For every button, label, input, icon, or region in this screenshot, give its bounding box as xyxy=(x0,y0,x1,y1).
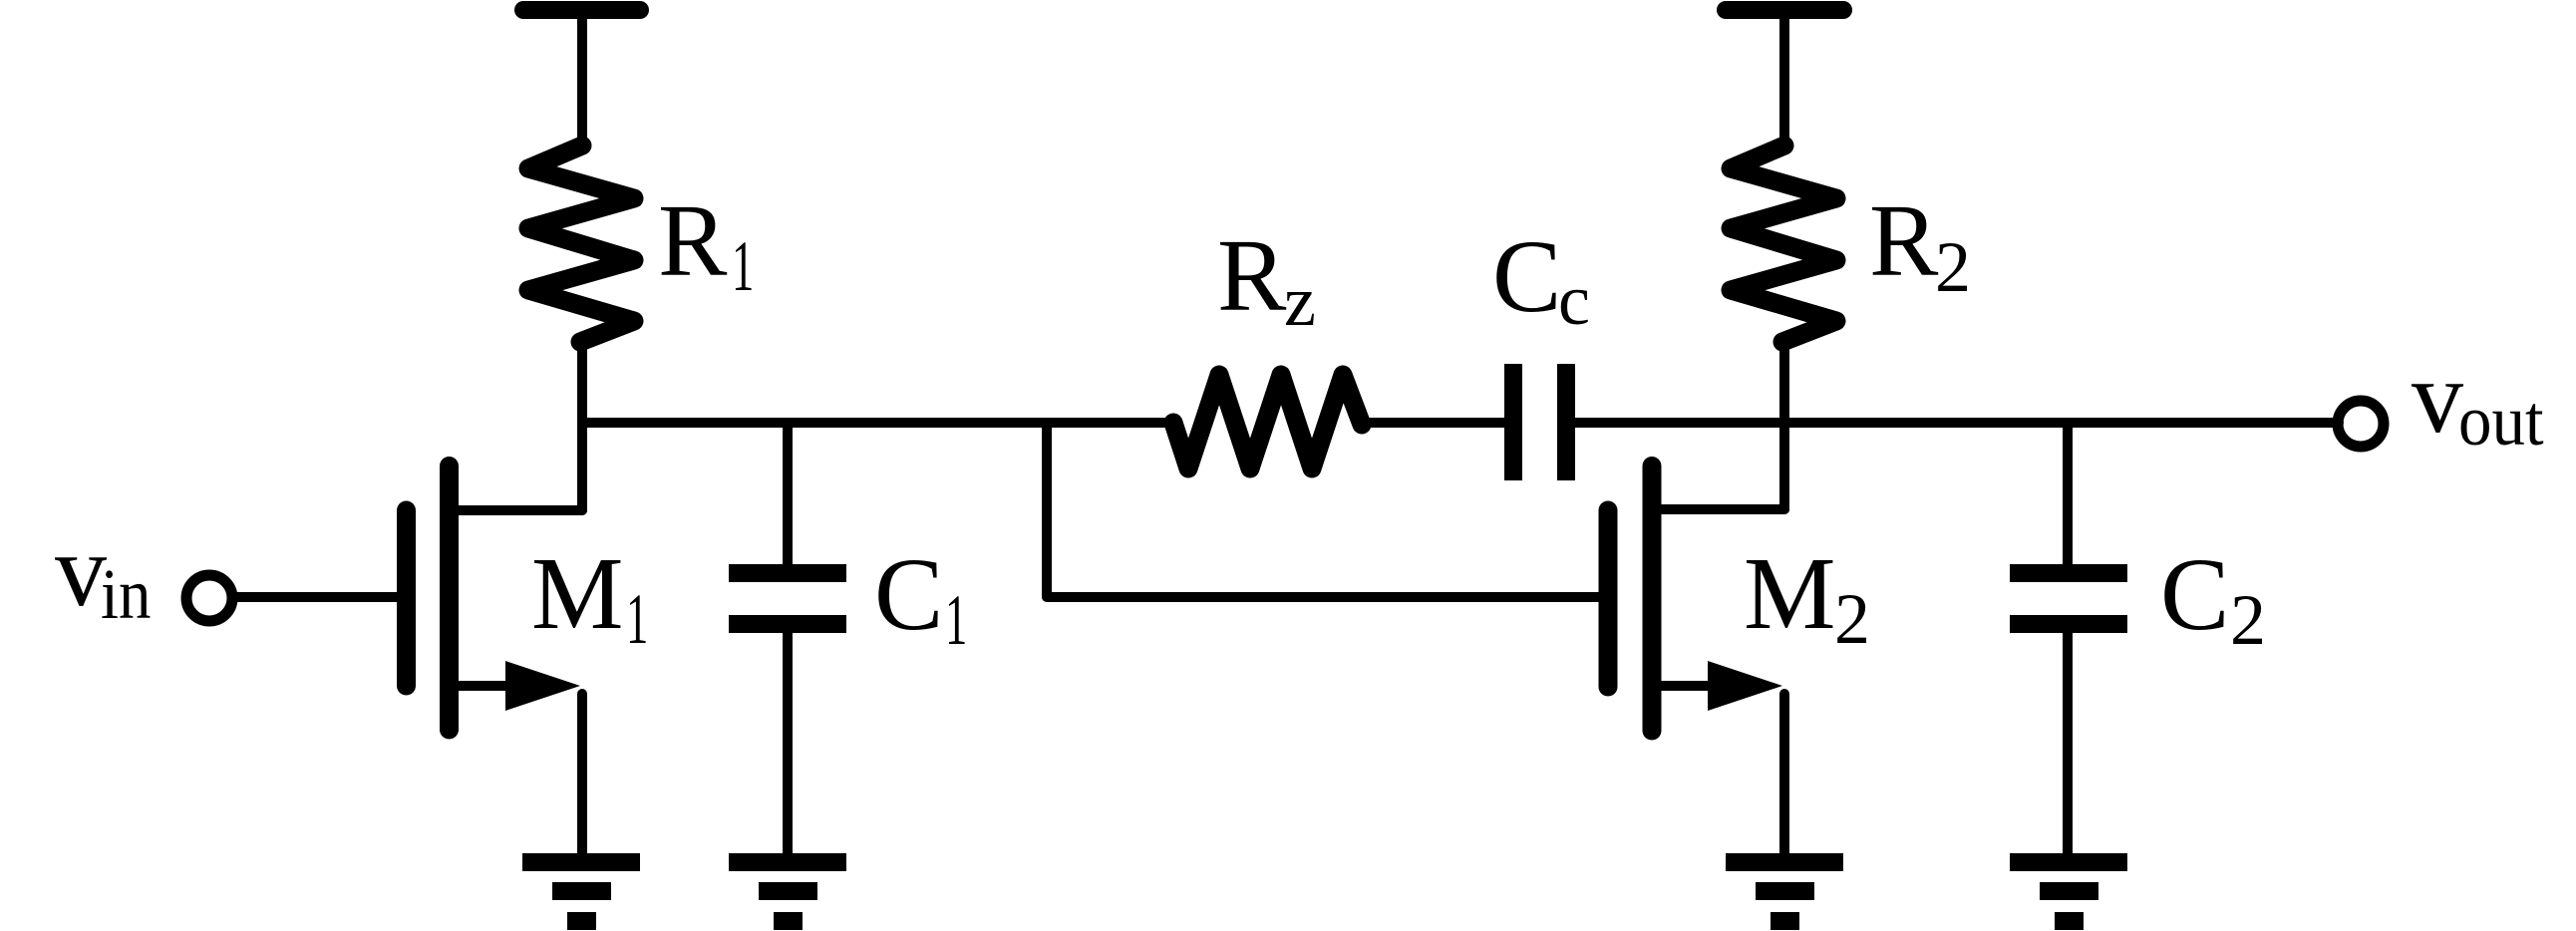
svg-text:C: C xyxy=(1492,219,1561,334)
svg-text:1: 1 xyxy=(945,580,967,659)
svg-text:R: R xyxy=(1869,183,1939,298)
svg-text:C: C xyxy=(874,537,943,652)
svg-text:2: 2 xyxy=(2230,580,2266,660)
svg-text:1: 1 xyxy=(626,579,648,658)
svg-text:v: v xyxy=(55,513,107,628)
svg-text:C: C xyxy=(2160,537,2229,652)
svg-text:2: 2 xyxy=(1935,227,1971,307)
svg-text:v: v xyxy=(2412,340,2463,455)
svg-text:R: R xyxy=(658,183,728,298)
svg-text:1: 1 xyxy=(732,226,754,305)
svg-text:z: z xyxy=(1284,261,1316,341)
svg-text:out: out xyxy=(2458,382,2544,462)
svg-text:c: c xyxy=(1558,260,1590,340)
svg-text:M: M xyxy=(1744,536,1835,651)
svg-text:2: 2 xyxy=(1834,579,1870,659)
svg-text:M: M xyxy=(531,536,623,651)
svg-text:in: in xyxy=(101,554,151,634)
svg-text:R: R xyxy=(1217,218,1287,333)
